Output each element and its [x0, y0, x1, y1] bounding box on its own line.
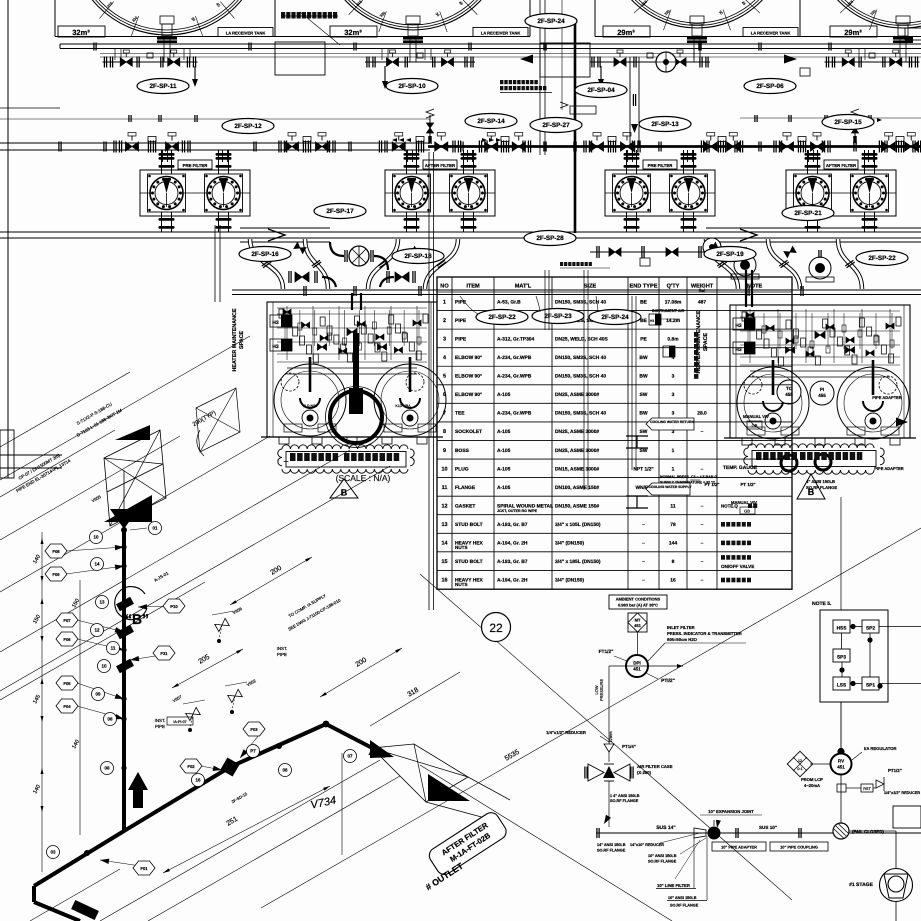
- svg-text:2F-SP-16: 2F-SP-16: [251, 251, 279, 258]
- svg-text:TEMP. GAUGE: TEMP. GAUGE: [723, 465, 758, 471]
- svg-text:–: –: [701, 504, 704, 509]
- svg-text:DPI: DPI: [633, 661, 641, 666]
- svg-text:PIPE: PIPE: [277, 652, 287, 657]
- svg-text:F06: F06: [63, 637, 71, 642]
- svg-text:ITEM: ITEM: [466, 284, 480, 290]
- svg-text:A-234, Gr.WPB: A-234, Gr.WPB: [497, 374, 532, 380]
- svg-text:13: 13: [99, 600, 105, 605]
- svg-text:1: 1: [672, 448, 675, 454]
- svg-text:NOTE.Q: NOTE.Q: [721, 503, 738, 508]
- svg-text:NUTS: NUTS: [455, 545, 468, 550]
- svg-text:2F-SP-11: 2F-SP-11: [150, 83, 177, 90]
- svg-text:10" PIPE ADAPTER: 10" PIPE ADAPTER: [721, 845, 757, 850]
- svg-text:PRE FILTER: PRE FILTER: [648, 163, 674, 168]
- svg-text:8: 8: [443, 429, 446, 435]
- svg-text:DN150, ASME 150#: DN150, ASME 150#: [555, 503, 599, 509]
- svg-text:RV: RV: [838, 759, 844, 764]
- svg-text:12: 12: [94, 628, 100, 633]
- svg-text:ELBOW 90°: ELBOW 90°: [455, 355, 482, 361]
- svg-text:451: 451: [634, 623, 641, 628]
- svg-text:I/A REGULATOR: I/A REGULATOR: [864, 746, 897, 751]
- svg-text:H3: H3: [735, 323, 742, 329]
- svg-text:SW: SW: [640, 392, 648, 398]
- svg-text:2F-SP-04: 2F-SP-04: [587, 87, 615, 94]
- svg-text:INSTRUMENT AIR: INSTRUMENT AIR: [652, 309, 685, 313]
- svg-text:A-105: A-105: [497, 392, 511, 398]
- svg-text:TEE: TEE: [455, 411, 465, 417]
- svg-text:JCKT, OUTER RG W/PE: JCKT, OUTER RG W/PE: [497, 509, 538, 513]
- svg-text:SPACE: SPACE: [703, 333, 709, 352]
- svg-text:5: 5: [443, 374, 446, 380]
- svg-text:1: 1: [672, 466, 675, 472]
- svg-text:SOCKOLET: SOCKOLET: [455, 429, 482, 435]
- svg-text:H3: H3: [650, 319, 655, 323]
- svg-text:1/4"x1/2" REDUCER: 1/4"x1/2" REDUCER: [884, 791, 920, 795]
- svg-text:4~20mA: 4~20mA: [804, 783, 820, 788]
- svg-text:SP3: SP3: [837, 655, 846, 661]
- svg-text:P10: P10: [170, 604, 178, 609]
- svg-text:12: 12: [798, 759, 802, 763]
- svg-text:11: 11: [111, 646, 116, 651]
- svg-text:MANUAL V/V: MANUAL V/V: [743, 414, 769, 419]
- svg-text:STUD BOLT: STUD BOLT: [455, 559, 483, 565]
- svg-text:A-234, Gr.WPB: A-234, Gr.WPB: [497, 411, 532, 417]
- svg-text:A-312, Gr.TP304: A-312, Gr.TP304: [497, 336, 535, 342]
- svg-text:16: 16: [195, 778, 201, 783]
- svg-text:3/4" x 105L (DN150): 3/4" x 105L (DN150): [555, 522, 601, 528]
- svg-text:AFTER FILTER: AFTER FILTER: [425, 163, 456, 168]
- svg-text:3/4" (DN150): 3/4" (DN150): [555, 541, 584, 547]
- svg-text:4: 4: [443, 355, 446, 361]
- svg-text:PT 1/2": PT 1/2": [740, 482, 755, 487]
- svg-text:SPACE: SPACE: [239, 331, 245, 350]
- svg-text:2F-SP-22: 2F-SP-22: [868, 255, 896, 262]
- svg-text:DN150, SM3S, SCH 40: DN150, SM3S, SCH 40: [555, 374, 606, 380]
- svg-text:BW: BW: [639, 374, 648, 380]
- svg-text:0-1: 0-1: [797, 767, 802, 771]
- svg-text:FROM LCP: FROM LCP: [801, 777, 823, 782]
- svg-text:NOTE: NOTE: [747, 284, 763, 290]
- svg-text:11: 11: [442, 485, 448, 491]
- svg-text:–: –: [642, 542, 645, 547]
- svg-text:PIPE ADAPTER: PIPE ADAPTER: [872, 395, 902, 400]
- svg-text:A-105: A-105: [497, 485, 511, 491]
- svg-text:2F-SP-28: 2F-SP-28: [536, 235, 564, 242]
- svg-text:3: 3: [443, 336, 446, 342]
- svg-text:F02: F02: [187, 764, 195, 769]
- svg-text:10" PIPE COUPLING: 10" PIPE COUPLING: [780, 845, 818, 850]
- svg-text:INLET FILTER: INLET FILTER: [667, 625, 695, 630]
- svg-text:09: 09: [95, 692, 101, 697]
- svg-text:SP2: SP2: [866, 626, 875, 632]
- svg-text:BW: BW: [639, 411, 648, 417]
- svg-text:MAT'L: MAT'L: [515, 284, 532, 290]
- svg-text:10" ANSI 150LB: 10" ANSI 150LB: [668, 896, 697, 900]
- svg-text:PT1/2": PT1/2": [888, 768, 902, 773]
- svg-text:2F-SP-14: 2F-SP-14: [477, 118, 505, 125]
- svg-text:2F-SP-27: 2F-SP-27: [542, 122, 570, 129]
- svg-text:14: 14: [442, 541, 448, 547]
- svg-text:2F-SP-24: 2F-SP-24: [601, 314, 629, 321]
- svg-text:10: 10: [101, 664, 107, 669]
- svg-text:NUTS: NUTS: [455, 582, 468, 587]
- svg-text:10: 10: [442, 466, 448, 472]
- svg-text:2F-SP-18: 2F-SP-18: [404, 253, 432, 260]
- svg-text:SO.RF FLANGE: SO.RF FLANGE: [648, 860, 677, 864]
- svg-text:1 4" ANSI 150LB: 1 4" ANSI 150LB: [610, 794, 640, 798]
- svg-text:DN25, ASME 3000#: DN25, ASME 3000#: [555, 429, 599, 435]
- svg-text:7: 7: [443, 411, 446, 417]
- svg-text:–: –: [701, 542, 704, 547]
- svg-text:SUS 10": SUS 10": [759, 825, 777, 830]
- svg-text:2: 2: [443, 318, 446, 324]
- svg-text:SIZE: SIZE: [584, 284, 597, 290]
- svg-text:16: 16: [670, 578, 676, 584]
- svg-text:PLUG: PLUG: [455, 466, 469, 472]
- svg-text:SO.RF FLANGE: SO.RF FLANGE: [610, 799, 639, 803]
- svg-text:(X-200): (X-200): [637, 770, 652, 775]
- svg-text:1/4"x1/2" REDUCER: 1/4"x1/2" REDUCER: [546, 730, 586, 735]
- svg-text:29m³: 29m³: [844, 28, 862, 37]
- svg-text:13: 13: [442, 522, 448, 528]
- svg-text:10" ANSI 150LB: 10" ANSI 150LB: [648, 854, 677, 858]
- svg-text:9: 9: [443, 448, 446, 454]
- svg-text:COOLING WATER SUPPLY: COOLING WATER SUPPLY: [649, 485, 693, 489]
- svg-text:MT: MT: [635, 618, 641, 623]
- svg-text:A-234, Gr.WPB: A-234, Gr.WPB: [497, 355, 532, 361]
- svg-text:F08: F08: [52, 549, 60, 554]
- svg-text:F05: F05: [63, 681, 71, 686]
- svg-text:AIR FILTER CASE: AIR FILTER CASE: [637, 764, 673, 769]
- svg-text:2F-SP-24: 2F-SP-24: [537, 18, 565, 25]
- svg-text:455: 455: [818, 393, 826, 398]
- svg-text:A-193, Gr. B7: A-193, Gr. B7: [497, 559, 528, 565]
- svg-text:2F-SP-23: 2F-SP-23: [544, 313, 572, 320]
- svg-text:487: 487: [698, 299, 706, 305]
- svg-text:SO.RF FLANGE: SO.RF FLANGE: [597, 849, 626, 853]
- svg-text:DN25, WELD, SCH 40S: DN25, WELD, SCH 40S: [555, 336, 608, 342]
- svg-text:08: 08: [104, 766, 110, 771]
- svg-text:144: 144: [669, 541, 677, 547]
- svg-text:14"x10" REDUCER: 14"x10" REDUCER: [630, 843, 664, 847]
- svg-text:F31: F31: [160, 651, 168, 656]
- svg-text:ON/OFF VALVE: ON/OFF VALVE: [721, 564, 754, 569]
- svg-text:ELBOW 90°: ELBOW 90°: [455, 392, 482, 398]
- svg-text:2F-SP-17: 2F-SP-17: [326, 208, 354, 215]
- svg-text:01: 01: [152, 526, 158, 531]
- svg-text:DN100, ASME 150#: DN100, ASME 150#: [555, 485, 599, 491]
- svg-text:FLANGE: FLANGE: [455, 485, 476, 491]
- svg-text:SO.RF FLANGE: SO.RF FLANGE: [806, 485, 837, 490]
- svg-text:(kg): (kg): [699, 289, 706, 293]
- svg-text:HEATER MAINTENANCE: HEATER MAINTENANCE: [232, 308, 238, 371]
- svg-text:07: 07: [347, 754, 353, 759]
- svg-text:PIPE ADAPTER: PIPE ADAPTER: [874, 466, 904, 471]
- svg-text:DN25, ASME 3000#: DN25, ASME 3000#: [555, 392, 599, 398]
- svg-text:IA-PI-07: IA-PI-07: [173, 720, 186, 724]
- svg-text:(FAIL CLOSED): (FAIL CLOSED): [852, 829, 884, 834]
- svg-text:BE: BE: [640, 299, 648, 305]
- svg-text:14" ANSI 150LB: 14" ANSI 150LB: [597, 843, 626, 847]
- svg-text:3: 3: [672, 411, 675, 417]
- svg-text:#1 STAGE: #1 STAGE: [849, 882, 873, 888]
- svg-text:F07: F07: [63, 618, 71, 623]
- svg-text:2F-SP-15: 2F-SP-15: [834, 119, 862, 126]
- svg-text:3: 3: [672, 392, 675, 398]
- svg-text:2F-SP-22: 2F-SP-22: [488, 314, 516, 321]
- svg-text:78: 78: [670, 522, 676, 528]
- svg-text:–: –: [701, 467, 704, 472]
- svg-text:H3: H3: [272, 320, 279, 326]
- svg-text:H3: H3: [272, 344, 279, 350]
- svg-text:A-53, Gr.B: A-53, Gr.B: [497, 299, 521, 305]
- svg-text:NOTE 5.: NOTE 5.: [812, 601, 832, 607]
- svg-text:ELBOW 90°: ELBOW 90°: [455, 374, 482, 380]
- svg-text:29m³: 29m³: [617, 28, 635, 37]
- svg-text:08: 08: [107, 717, 113, 722]
- svg-text:2F-SP-21: 2F-SP-21: [794, 210, 822, 217]
- svg-text:SO.RF FLANGE: SO.RF FLANGE: [670, 904, 699, 908]
- svg-text:1: 1: [443, 299, 446, 305]
- svg-text:NO: NO: [440, 284, 449, 290]
- svg-text:F09: F09: [52, 572, 60, 577]
- svg-text:PRESS. INDICATOR & TRANSMITTER: PRESS. INDICATOR & TRANSMITTER: [667, 631, 742, 636]
- svg-text:2F-SP-10: 2F-SP-10: [398, 83, 426, 90]
- svg-text:PRE FILTER: PRE FILTER: [183, 163, 209, 168]
- svg-text:COOLING WATER RETURN: COOLING WATER RETURN: [650, 420, 694, 424]
- svg-text:8: 8: [672, 559, 675, 565]
- svg-text:NPT 1/2": NPT 1/2": [633, 466, 653, 472]
- svg-text:DN15, ASME 3000#: DN15, ASME 3000#: [555, 466, 599, 472]
- svg-text:3/4" (DN150): 3/4" (DN150): [555, 578, 584, 584]
- svg-text:17.08m: 17.08m: [665, 299, 682, 305]
- svg-text:605=50cm H2O: 605=50cm H2O: [667, 637, 698, 642]
- svg-text:SP1: SP1: [866, 683, 875, 689]
- svg-text:GB: GB: [752, 423, 758, 428]
- svg-text:0.8m: 0.8m: [667, 336, 679, 342]
- svg-text:451: 451: [837, 765, 845, 770]
- svg-text:KLD-NBJ: KLD-NBJ: [303, 404, 318, 408]
- svg-text:SUS 14": SUS 14": [656, 825, 676, 831]
- svg-text:FT1/2": FT1/2": [599, 649, 614, 655]
- svg-text:END TYPE: END TYPE: [630, 284, 658, 290]
- svg-text:PI: PI: [820, 387, 824, 392]
- svg-text:–: –: [701, 579, 704, 584]
- svg-text:22: 22: [489, 621, 503, 635]
- svg-text:2F-SP-06: 2F-SP-06: [756, 83, 784, 90]
- svg-text:AFTER FILTER: AFTER FILTER: [826, 163, 857, 168]
- svg-text:2F-SP-19: 2F-SP-19: [716, 251, 744, 258]
- svg-text:A-105: A-105: [497, 429, 511, 435]
- svg-text:SW: SW: [640, 429, 648, 435]
- svg-text:PT1/4": PT1/4": [622, 744, 636, 749]
- svg-text:–: –: [642, 523, 645, 528]
- svg-text:INST.: INST.: [155, 718, 166, 723]
- svg-text:PIPE: PIPE: [455, 318, 467, 324]
- svg-text:PTI/2": PTI/2": [661, 678, 675, 684]
- svg-text:15: 15: [442, 559, 448, 565]
- svg-text:SW: SW: [640, 448, 648, 454]
- svg-text:03: 03: [50, 850, 56, 855]
- svg-text:LSS: LSS: [837, 683, 847, 689]
- svg-text:F03: F03: [250, 727, 258, 732]
- svg-text:6: 6: [443, 392, 446, 398]
- svg-text:BE: BE: [640, 318, 648, 324]
- svg-text:3: 3: [672, 374, 675, 380]
- svg-text:GB: GB: [744, 509, 750, 514]
- svg-text:DN150, SM3S, SCH 40: DN150, SM3S, SCH 40: [555, 299, 606, 305]
- svg-text:P7: P7: [250, 749, 256, 754]
- svg-text:32m³: 32m³: [344, 28, 362, 37]
- svg-text:14: 14: [94, 562, 100, 567]
- svg-text:–: –: [701, 430, 704, 435]
- svg-text:2F-SP-12: 2F-SP-12: [234, 123, 262, 130]
- svg-text:32m³: 32m³: [72, 28, 90, 37]
- svg-text:BW: BW: [639, 355, 648, 361]
- svg-text:A-193, Gr. B7: A-193, Gr. B7: [497, 522, 528, 528]
- svg-text:BOSS: BOSS: [455, 448, 470, 454]
- svg-text:0.983 bar (A) AT 38°C: 0.983 bar (A) AT 38°C: [618, 603, 658, 608]
- svg-text:HSS: HSS: [837, 626, 848, 632]
- svg-text:GASKET: GASKET: [455, 503, 475, 509]
- svg-text:DN150, SM3S, SCH 40: DN150, SM3S, SCH 40: [555, 355, 606, 361]
- svg-text:451: 451: [633, 667, 641, 672]
- svg-text:A-194, Gr. 2H: A-194, Gr. 2H: [497, 578, 528, 584]
- svg-text:PRESSURE: PRESSURE: [599, 679, 604, 701]
- svg-text:KLD-NBA: KLD-NBA: [395, 404, 411, 408]
- svg-text:–: –: [701, 523, 704, 528]
- svg-text:PIPE: PIPE: [455, 336, 467, 342]
- svg-text:F04: F04: [63, 704, 71, 709]
- svg-text:4" ANSI 150LB: 4" ANSI 150LB: [806, 479, 835, 484]
- svg-text:10" EXPANSION JOINT: 10" EXPANSION JOINT: [708, 809, 754, 814]
- svg-text:16: 16: [442, 578, 448, 584]
- svg-text:12: 12: [442, 503, 448, 509]
- svg-text:–: –: [642, 579, 645, 584]
- svg-text:“B”: “B”: [125, 611, 149, 627]
- svg-text:LA RECEIVER TANK: LA RECEIVER TANK: [226, 30, 266, 35]
- svg-text:PE: PE: [640, 336, 647, 342]
- svg-text:A-105: A-105: [497, 448, 511, 454]
- svg-text:RST: RST: [863, 787, 871, 791]
- svg-text:11: 11: [670, 503, 675, 509]
- svg-text:2F-SP-13: 2F-SP-13: [651, 121, 679, 128]
- svg-text:F01: F01: [140, 866, 148, 871]
- svg-text:A-194, Gr. 2H: A-194, Gr. 2H: [497, 541, 528, 547]
- svg-text:LA RECEIVER TANK: LA RECEIVER TANK: [751, 30, 791, 35]
- svg-text:LA RECEIVER TANK: LA RECEIVER TANK: [481, 30, 521, 35]
- svg-text:3/4" x 185L (DN150): 3/4" x 185L (DN150): [555, 559, 601, 565]
- svg-text:DN150, SM3S, SCH 40: DN150, SM3S, SCH 40: [555, 411, 606, 417]
- svg-text:NORMAL PRESS. C3 ~ 4.5 BAR G: NORMAL PRESS. C3 ~ 4.5 BAR G: [660, 475, 717, 479]
- svg-text:DN25, ASME 3000#: DN25, ASME 3000#: [555, 448, 599, 454]
- svg-text:STUD BOLT: STUD BOLT: [455, 522, 483, 528]
- svg-text:_: _: [283, 453, 289, 462]
- svg-text:PIPE: PIPE: [155, 724, 165, 729]
- svg-text:A-105: A-105: [497, 466, 511, 472]
- svg-text:INST.: INST.: [277, 646, 288, 651]
- svg-text:–: –: [701, 560, 704, 565]
- svg-text:28.0: 28.0: [697, 411, 707, 417]
- svg-text:12mm: 12mm: [608, 731, 613, 743]
- svg-text:Q'TY: Q'TY: [667, 284, 680, 290]
- svg-text:10: 10: [93, 535, 99, 540]
- svg-text:10" LINE FILTER: 10" LINE FILTER: [657, 883, 690, 888]
- svg-text:AMBIENT CONDITIONS: AMBIENT CONDITIONS: [616, 597, 661, 602]
- svg-text:–: –: [642, 560, 645, 565]
- svg-text:06: 06: [282, 768, 288, 773]
